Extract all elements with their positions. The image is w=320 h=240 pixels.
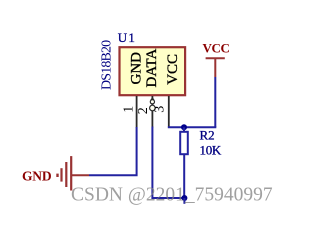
power symbol GND [22, 156, 89, 190]
svg-text:2: 2 [136, 107, 151, 114]
wire resistor bottom [183, 154, 185, 198]
resistor R2 [180, 132, 188, 154]
svg-text:GND: GND [129, 52, 145, 85]
IC U1 (DS18B20 temperature sensor) body [120, 47, 186, 95]
wire GND to pin1 [89, 127, 137, 175]
wire bottom horizontal [152, 197, 184, 199]
svg-text:VCC: VCC [165, 54, 181, 85]
power symbol VCC [203, 41, 230, 78]
pin 1 stub [136, 96, 138, 128]
svg-text:10K: 10K [200, 143, 222, 158]
wire pin2 (DATA) down [151, 127, 153, 200]
wire VCC vertical [214, 77, 216, 127]
svg-text:VCC: VCC [203, 41, 230, 56]
svg-text:1: 1 [121, 106, 136, 113]
svg-text:DATA: DATA [144, 49, 160, 88]
wire stub going down off-page [183, 198, 185, 204]
node junction at resistor bottom [181, 195, 187, 201]
wire resistor top stub [183, 127, 185, 132]
svg-text:3: 3 [153, 106, 168, 113]
svg-text:U1: U1 [118, 30, 136, 45]
svg-text:CSDN @2201_75940997: CSDN @2201_75940997 [71, 185, 273, 206]
svg-text:GND: GND [22, 168, 52, 183]
node junction at resistor top [181, 124, 187, 130]
pin 2 stub [151, 96, 153, 128]
pin 2 I/O arrow symbol [150, 97, 154, 100]
pin 3 stub [168, 96, 170, 127]
svg-text:R2: R2 [200, 128, 215, 143]
wire pin3 to VCC line [168, 126, 217, 128]
svg-text:DS18B20: DS18B20 [100, 40, 115, 90]
